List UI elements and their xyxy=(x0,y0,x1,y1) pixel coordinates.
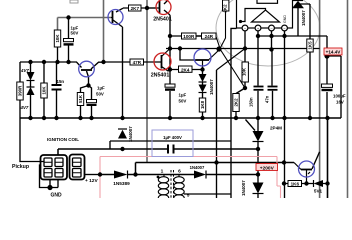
wire R3 column xyxy=(43,62,45,118)
resistor R 24R xyxy=(202,33,217,39)
svg-text:2K7: 2K7 xyxy=(131,6,140,11)
junction node (56.5,118) xyxy=(54,116,58,120)
junction node (271.5,36) xyxy=(269,34,273,38)
junction node (57.5,62) xyxy=(55,60,59,64)
svg-text:+ 12V: + 12V xyxy=(85,178,98,184)
capacitor C 47n xyxy=(265,86,278,103)
pink supply wires xyxy=(100,157,281,199)
svg-text:1N4007: 1N4007 xyxy=(209,79,214,95)
wire gray base feed T1 xyxy=(58,18,112,31)
wire y174 supply line xyxy=(100,174,258,176)
svg-text:1N5389: 1N5389 xyxy=(113,181,130,186)
wire pin2 scr column xyxy=(246,31,259,198)
IC pin1 marker dot xyxy=(239,20,242,23)
wire y141 link xyxy=(110,141,231,149)
junction node (30.5,62) xyxy=(28,60,32,64)
svg-text:1µF 400V: 1µF 400V xyxy=(163,135,182,140)
svg-text:4V7: 4V7 xyxy=(20,68,29,73)
junction node (327.5,118) xyxy=(325,116,329,120)
resistor R 51K vertical xyxy=(77,93,83,106)
svg-text:1µF: 1µF xyxy=(179,93,187,98)
junction node (245,88) xyxy=(243,86,247,90)
wire supply rail bottom column xyxy=(327,118,329,198)
svg-text:2K2: 2K2 xyxy=(222,4,227,13)
wire gnd loop xyxy=(40,165,59,188)
svg-text:50V: 50V xyxy=(96,92,104,97)
svg-text:10K: 10K xyxy=(55,34,60,43)
svg-text:16V: 16V xyxy=(336,100,344,105)
transistor T3 2N5401 red mid xyxy=(151,49,171,79)
junction node (271.5,49.5) xyxy=(269,47,273,51)
junction node (147,8) xyxy=(145,6,149,10)
svg-text:47R: 47R xyxy=(133,60,142,65)
wire housing B to 12V xyxy=(84,174,100,176)
svg-text:50V: 50V xyxy=(179,99,187,104)
wire pin4 gnd column xyxy=(284,31,286,198)
diode D9 1N4007 bottom xyxy=(241,180,264,196)
svg-text:1: 1 xyxy=(161,169,164,175)
junction node (122.5,149) xyxy=(120,147,124,151)
svg-text:150n: 150n xyxy=(249,97,254,107)
connector housing B xyxy=(70,155,85,180)
transistor T5 blue bottom right xyxy=(294,161,315,184)
capacitor C 1uF400V xyxy=(163,135,182,154)
wire y162 trigger line xyxy=(136,163,295,175)
svg-text:1K5: 1K5 xyxy=(308,41,313,50)
transformer ignition coil xyxy=(158,170,184,201)
svg-text:2N5401: 2N5401 xyxy=(153,17,172,23)
violet callout box 1uF400V xyxy=(152,130,193,157)
wire gray vertical bus D xyxy=(347,0,349,198)
zener D2 4V7 xyxy=(20,87,35,110)
junction node (236,118) xyxy=(234,116,238,120)
junction node (68.5,17.5) xyxy=(66,15,70,19)
wire gray vertical bus A xyxy=(103,0,105,62)
wire resistor column R2 xyxy=(57,47,59,62)
junction node (180,48.5) xyxy=(178,46,182,50)
svg-text:51K: 51K xyxy=(78,94,83,103)
wire R x310 column xyxy=(296,4,310,118)
pin circle 4 xyxy=(282,25,288,31)
junction node (135.5,174.5) xyxy=(133,172,137,176)
transistor T1b blue mid left xyxy=(79,61,95,77)
junction node (30.5,118) xyxy=(28,116,32,120)
wire op-amp feedback loop xyxy=(242,9,266,22)
svg-text:47n: 47n xyxy=(265,95,270,103)
decorative ellipse highlight xyxy=(216,0,320,66)
junction node (68.5,62) xyxy=(66,60,70,64)
wire diode D5 column xyxy=(297,8,299,36)
resistor R 2K2 vertical top xyxy=(222,0,229,13)
wire T1b emitter split xyxy=(81,71,92,118)
junction node (171,118) xyxy=(168,116,172,120)
junction node (284,162.5) xyxy=(282,160,286,164)
junction node (258,149) xyxy=(256,147,260,151)
junction node (169.5,36) xyxy=(168,34,172,38)
capacitor C2 1uF50V electrolytic xyxy=(87,86,105,107)
junction node (219,49) xyxy=(216,46,221,51)
svg-text:1N4007: 1N4007 xyxy=(301,10,306,26)
wire bus y62 left xyxy=(20,62,104,69)
junction node (122.5,118) xyxy=(120,116,124,120)
wire coil return y196 xyxy=(184,193,231,195)
resistor R 2K4 xyxy=(179,66,193,72)
pin circle 2 xyxy=(255,25,261,31)
resistor R 1K5 vertical xyxy=(307,39,313,52)
svg-text:IGNITION COIL: IGNITION COIL xyxy=(47,137,79,142)
junction node (307,183.5) xyxy=(304,181,308,185)
wire cap C1 column xyxy=(68,18,70,63)
junction node (91.5,118) xyxy=(89,116,93,120)
svg-text:2K2: 2K2 xyxy=(234,98,239,107)
resistor R 1K6 xyxy=(288,181,302,187)
svg-text:2N5401: 2N5401 xyxy=(151,73,170,79)
wire collector line T1 to 2K7 xyxy=(116,8,156,12)
resistor R 100R xyxy=(182,33,197,39)
svg-text:1K6: 1K6 xyxy=(291,182,300,187)
svg-text:100µF: 100µF xyxy=(333,94,346,99)
wire 100R to 24R link xyxy=(196,35,202,37)
wire left column R1 xyxy=(20,62,44,162)
pin circle 1 xyxy=(242,25,248,31)
zener D10 5V1 xyxy=(314,180,324,194)
IC module outline xyxy=(237,0,293,31)
wire pin3 column xyxy=(272,31,273,118)
wire bus y62 right xyxy=(104,61,156,63)
capacitor C3 1uF50V electrolytic xyxy=(165,84,186,104)
svg-text:15n: 15n xyxy=(57,79,65,84)
svg-text:2K4: 2K4 xyxy=(181,67,190,72)
wire gray vertical bus C xyxy=(319,0,321,198)
svg-text:50V: 50V xyxy=(71,31,79,36)
capacitor C 100uF16V electrolytic xyxy=(322,84,346,105)
diode D5 1N4007 top right xyxy=(292,1,306,27)
svg-text:390R: 390R xyxy=(18,85,23,96)
thyristor Q 2P4M body xyxy=(253,126,283,142)
svg-text:5: 5 xyxy=(187,193,190,199)
svg-text:4V7: 4V7 xyxy=(20,105,29,110)
svg-text:1K8: 1K8 xyxy=(200,100,205,109)
wire node x171 column xyxy=(170,36,203,118)
pin circle 3 xyxy=(269,25,275,31)
svg-text:+200V: +200V xyxy=(260,166,275,172)
junction node (327,56) xyxy=(324,53,329,58)
svg-text:5V1: 5V1 xyxy=(314,189,323,194)
junction node (202.5,118) xyxy=(200,116,204,120)
junction node (80.5,118) xyxy=(78,116,82,120)
junction node (258,174.5) xyxy=(256,172,260,176)
junction node (202.5,69.5) xyxy=(200,67,204,71)
wire zener column xyxy=(30,62,32,118)
wire y149 HV line xyxy=(58,149,258,156)
wire C15n column xyxy=(56,62,58,118)
diode D6 1N4007 under bus xyxy=(118,126,133,142)
wire T5 leads xyxy=(312,152,320,169)
svg-text:10K: 10K xyxy=(42,86,47,95)
wire cap 100uF column xyxy=(326,56,328,118)
wire trigger diagonals xyxy=(217,49,246,89)
resistor R 390R vertical xyxy=(17,82,23,100)
wire y183 zener row xyxy=(284,183,328,185)
transistor T2 2N5401 red top xyxy=(147,0,172,23)
diode D3 1N4007 vertical pair a xyxy=(199,74,207,82)
resistor R 2K7 xyxy=(129,5,142,11)
svg-text:100R: 100R xyxy=(183,34,195,39)
wire main bus y118 xyxy=(20,117,341,119)
wire gray vertical bus B xyxy=(146,0,148,162)
connector housing A xyxy=(41,155,68,180)
junction node (100,174.5) xyxy=(98,172,102,176)
transistor T4 blue mid xyxy=(194,49,220,70)
svg-text:Pickup: Pickup xyxy=(12,164,29,170)
svg-text:1N4007: 1N4007 xyxy=(241,180,246,196)
diode D4 1N4007 vertical pair b xyxy=(199,79,215,95)
resistor R 47R xyxy=(130,59,144,65)
transistor T1 blue top xyxy=(108,10,123,25)
resistor R 10K pin1 xyxy=(242,62,249,82)
junction node (272.5,118) xyxy=(270,116,274,120)
junction node (170,48.5) xyxy=(168,46,172,50)
diode D8 1N4007 horizontal xyxy=(190,165,206,179)
junction node (258,36) xyxy=(256,34,260,38)
svg-text:1N4007: 1N4007 xyxy=(190,165,205,170)
svg-text:24R: 24R xyxy=(205,34,214,39)
junction node (327.5,183.5) xyxy=(325,181,329,185)
junction node (50,187.5) xyxy=(47,185,52,190)
svg-text:GND: GND xyxy=(51,193,63,199)
junction node (284,183.5) xyxy=(282,181,286,185)
label +14.4V red box xyxy=(324,48,342,55)
diode D7 1N5389 xyxy=(113,171,130,187)
junction node (310,118) xyxy=(308,116,312,120)
junction node (284.5,36) xyxy=(282,34,286,38)
wire x231 column xyxy=(231,28,237,198)
junction node (171,69.5) xyxy=(168,67,172,71)
label +200V red box xyxy=(256,164,278,172)
svg-text:GND: GND xyxy=(283,15,287,23)
junction node (258,118) xyxy=(256,116,260,120)
junction node (103.5,62) xyxy=(101,60,105,64)
wire node line y49 xyxy=(166,48,320,50)
transformer phase dot xyxy=(157,176,160,179)
wire T4 emitter diode chain xyxy=(202,70,204,119)
resistor R2 10K vertical top xyxy=(54,30,60,47)
svg-text:1µF: 1µF xyxy=(97,86,105,91)
zener D1 4V7 xyxy=(20,68,35,81)
resistor R3 10K vertical xyxy=(41,83,47,98)
junction node (216.5,162.5) xyxy=(214,160,218,164)
svg-text:1N4007: 1N4007 xyxy=(128,126,133,142)
wire y36 right rail xyxy=(256,36,341,118)
svg-text:10K: 10K xyxy=(242,67,247,76)
junction node (284.5,118) xyxy=(282,116,286,120)
resistor R 1K8 vertical xyxy=(199,98,205,112)
junction node (44,118) xyxy=(42,116,46,120)
junction node (245,48.5) xyxy=(243,46,247,50)
resistor R 2K2b vertical xyxy=(233,94,239,112)
junction node (44,62) xyxy=(42,60,46,64)
wire T1 base emitter xyxy=(111,18,123,119)
svg-text:+14.4V: +14.4V xyxy=(326,50,342,55)
main bus y62 y118 overdots already drawn; bus lines xyxy=(20,117,341,119)
svg-text:2P4M: 2P4M xyxy=(270,126,282,131)
svg-text:6: 6 xyxy=(178,169,181,175)
wire T2 emitter to 100R 24R chain xyxy=(164,0,202,36)
capacitor C 15n xyxy=(52,79,65,91)
junction node (88.5,85.5) xyxy=(86,83,90,87)
wire pin1 column xyxy=(217,31,246,198)
capacitor C1 1uF50V electrolytic xyxy=(64,26,79,46)
wire T4 base link xyxy=(180,49,196,60)
wire R6 2K2 and 24R diagonals to node xyxy=(216,11,226,49)
top edge cut mark xyxy=(70,0,78,3)
capacitor C 150n xyxy=(249,86,264,107)
op-amp U1 xyxy=(252,10,280,22)
